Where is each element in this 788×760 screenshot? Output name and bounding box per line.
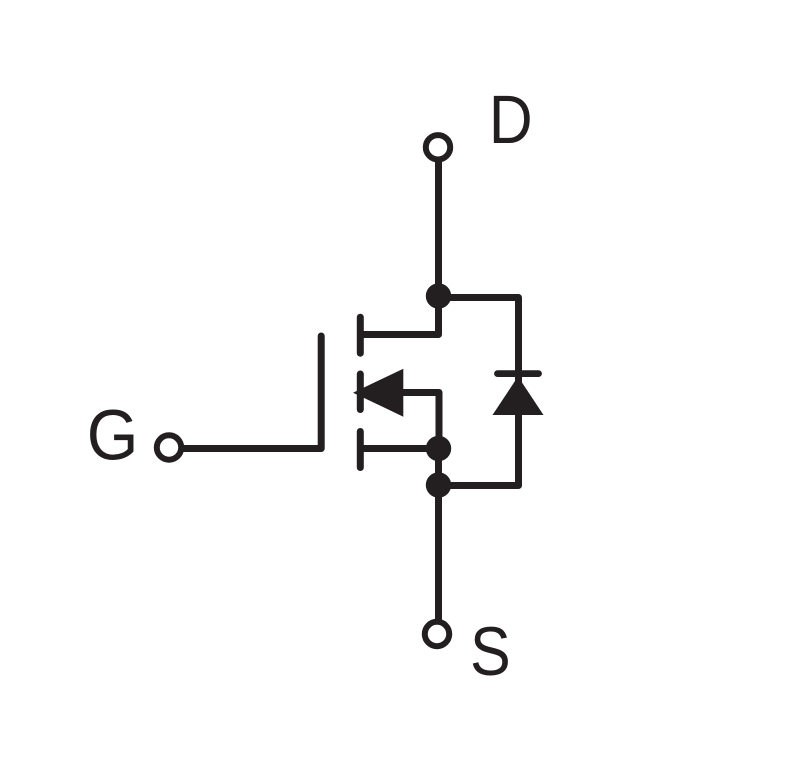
svg-text:D: D: [489, 80, 533, 158]
svg-text:G: G: [87, 395, 139, 475]
svg-text:S: S: [470, 613, 511, 690]
